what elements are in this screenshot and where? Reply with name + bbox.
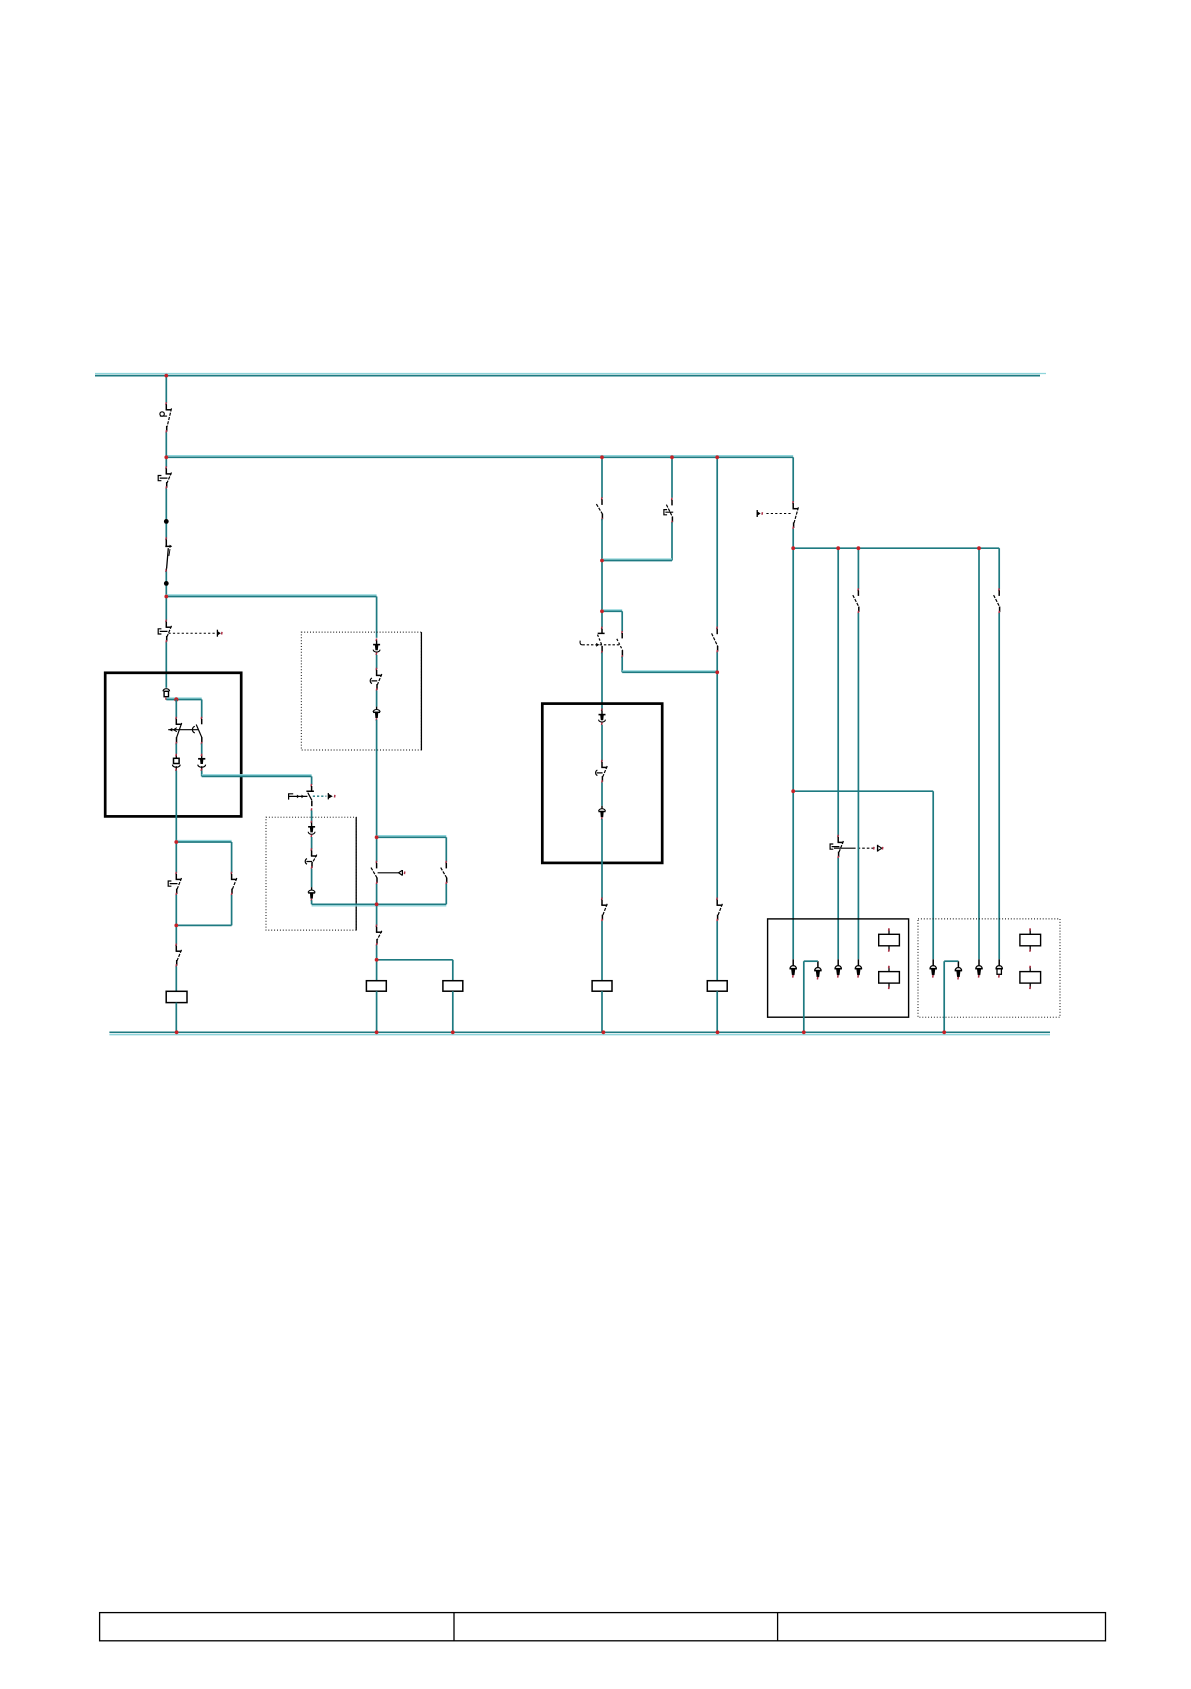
connector pin into socket (top) in D1 [373, 639, 380, 656]
contact S4 (manual switch with mechanical link) [158, 620, 171, 643]
wire branch3b from L2 to S14 [671, 457, 673, 498]
terminal box P2 (dotted outline) [918, 919, 1060, 1017]
wire branch4 from L2 down to S17 [716, 457, 718, 628]
plug pin P2-3 [975, 959, 982, 977]
wire S5 to bypass bottom [175, 895, 177, 925]
contact S14 (manual, E actuator) [664, 498, 673, 524]
wire P1 return to bottom rail (vert) [803, 961, 805, 1032]
wire branch2 to S12 [376, 904, 378, 926]
component F4 in box P2 [1020, 966, 1041, 989]
terminal box P1 (solid outline) [768, 919, 909, 1017]
wire S15 to coil K4 [601, 921, 603, 981]
junction loop bottom y904 [375, 902, 379, 906]
connector pin X2 left (hollow) in U1 [172, 754, 180, 771]
wire D2 internal 1 [311, 837, 313, 850]
contact S6 (bypass right leg) [231, 872, 237, 896]
wire P2 return to bottom rail (horiz) [944, 960, 958, 962]
wire S19 down into box P1 [837, 858, 839, 959]
wire S21 down into box P2 [998, 613, 1000, 959]
wire branch3 from L2 to S13 [601, 457, 603, 498]
wire split node down right leg [201, 700, 203, 719]
wire K1 to bottom rail [175, 1003, 177, 1033]
wire D2 exit down [311, 900, 313, 904]
wire branch x793 down to y791 junction [792, 548, 794, 791]
wire merge node down to step node [601, 561, 603, 612]
mechanical link dashed line of S4 with arrow [169, 630, 223, 637]
wire S4 into interlock box U1 [165, 642, 167, 688]
wire S18 to rail y548 [792, 529, 794, 548]
wire step rung y611 [602, 610, 622, 611]
connector socket to pin (bottom) in D2 [308, 887, 315, 901]
wire U1 right leg to corner [201, 771, 203, 777]
wire S2 to node dot A [165, 489, 167, 540]
junction rail y548 left [791, 546, 795, 550]
junction split node in U1 [174, 697, 178, 701]
wire node B to contact S4 [165, 597, 167, 621]
junction K2 at bottom rail [375, 1030, 379, 1034]
wire loop left leg to S10 [376, 837, 378, 862]
wire S13 to merge node y560 [601, 519, 603, 561]
wire S16 to coil K5 [716, 921, 718, 981]
junction y672 branch4 [715, 670, 719, 674]
junction node B y596 [164, 595, 168, 599]
contact S2 (manual switch, E actuator) [158, 466, 171, 489]
component F3 in box P2 [1020, 928, 1041, 952]
wire x838 from rail down to S19 [837, 548, 839, 836]
contact S8b in D2 (arc actuator) [305, 848, 317, 869]
junction L1/branch1 [164, 374, 168, 378]
interlock box U1 (bold outline) [105, 673, 241, 817]
component F2 in box P1 [879, 966, 900, 989]
contact S19 (manual, E actuator, linked) [830, 835, 843, 859]
wire rung y672 to branch x717 [622, 671, 717, 672]
contact S16 [717, 898, 723, 922]
socket X1 (dome + hollow pin) in box U1 [163, 689, 170, 700]
wire x933 down into box P2 [932, 791, 934, 959]
wire U2 internal 1 [601, 725, 603, 761]
wire x793 into box P1 connector [792, 791, 794, 959]
wire rail y548 [793, 547, 999, 549]
junction loop top y837 [375, 835, 379, 839]
contact S11 (right leg of loop) [441, 861, 447, 885]
contact S15 [601, 898, 607, 922]
wire branch2 down into dotted box D1 [376, 597, 378, 638]
component F1 in box P1 [879, 928, 900, 952]
wire coil node down to coil K2 [376, 960, 378, 981]
plug pin P1-3 [835, 959, 842, 977]
junction merge y560 [600, 559, 604, 563]
wire S9 left down into box U2 [601, 653, 603, 710]
junction rail y548 x858 [857, 546, 861, 550]
coil K1 [166, 991, 187, 1002]
title block frame [100, 1613, 1106, 1641]
junction L2/branch3b [670, 455, 674, 459]
wire down to S9 left [601, 611, 603, 627]
junction P1 return at bottom rail [802, 1030, 806, 1034]
junction y791 x793 [791, 789, 795, 793]
wire rung y596 from node B to branch2 [166, 595, 376, 597]
contact S7b in D1 (arc actuator) [370, 668, 382, 691]
junction L2/branch1 [164, 455, 168, 459]
wire x858 from rail down to S20 [857, 548, 859, 589]
mechanical link line of S19 with arrow [834, 845, 883, 852]
wire S8 into dotted box D2 [311, 810, 313, 822]
dotted box D1 outline [301, 632, 421, 750]
junction rail y548 x979 [977, 546, 981, 550]
wire corner down to S8 [311, 776, 313, 784]
wire S14 down to rung y560 [671, 522, 673, 560]
wire S1 to L2 junction [165, 432, 167, 457]
wire S7 to coil K1 [175, 966, 177, 991]
wire S17 to junction y672 [716, 652, 718, 672]
wire K5 to bottom rail [716, 991, 718, 1032]
plug pin P1-4 [855, 959, 862, 977]
connector pin into socket (top) in D2 [308, 821, 315, 838]
contact S21 [994, 588, 1000, 613]
contact S9 left (linked changeover, T-bar) [598, 627, 605, 654]
title block divider 2 [777, 1613, 779, 1641]
wire U1 to switch S8 horizontal [202, 775, 312, 777]
wire P2 return to bottom rail (vert) [943, 961, 945, 1032]
mechanical linkage of changeover pair in U1 [168, 726, 198, 733]
junction K3 at bottom rail [451, 1030, 455, 1034]
contact S13 [596, 497, 602, 520]
wire branch4 down to S16 [716, 672, 718, 899]
contact S20 [853, 588, 859, 613]
junction U1 left leg y842 [174, 840, 178, 844]
wire P1 return to bottom rail (horiz) [804, 960, 818, 962]
contact S3 (breaker element with arrowed foot) [165, 537, 172, 572]
junction P2 return at bottom rail [942, 1030, 946, 1034]
wire U2 exit down [601, 819, 603, 899]
wire rung y904 from D2 to right loop [312, 904, 447, 906]
wire S20 down into box P1 [857, 613, 859, 959]
wire K3 to bottom rail [452, 991, 454, 1032]
black connection dot B [164, 581, 169, 586]
wire rail y548 corner down x999 [998, 548, 1000, 589]
wire S3 to node dot B [165, 572, 167, 597]
wire down to coil K3 [452, 960, 454, 981]
wire loop right leg down to S11 [445, 837, 447, 862]
junction bypass bottom y925 [174, 924, 178, 928]
contact S9b in U2 (arc actuator) [596, 760, 608, 783]
wire branch1 from L1 to contact S1 [165, 376, 167, 404]
junction K5 at bottom rail [716, 1030, 720, 1034]
contact S5 (manual, E actuator) [168, 872, 181, 896]
wire rung y791 [793, 790, 933, 792]
wire split node down left leg [175, 700, 177, 719]
wire rung y560 merge [602, 559, 672, 561]
mechanical link dashed line of S18 [757, 510, 790, 517]
wire D1 internal 1 [376, 655, 378, 669]
changeover contact left half in U1 [176, 717, 182, 745]
contact S9 right (linked changeover) [617, 631, 623, 658]
wire S9 right down to corner [621, 657, 623, 673]
wire branch5 corner from L2 down to S18 [792, 457, 794, 502]
wire U2 internal 2 [601, 783, 603, 806]
wire S10 down to y904 junction [376, 884, 378, 904]
wire U1 left leg down out of box [175, 771, 177, 842]
junction step y611 [600, 609, 604, 613]
junction coil node y960 [375, 958, 379, 962]
plug pin P2-1 [930, 959, 937, 977]
plug pin P2-2 [955, 961, 962, 979]
connector pin X3 right (filled) in U1 [198, 754, 206, 771]
wire x979 from rail down into box P2 [978, 548, 980, 959]
changeover contact right half in U1 [196, 717, 202, 745]
contact S17 [712, 627, 718, 653]
bus L1 (top horizontal supply rail) [95, 374, 1046, 376]
coil K3 [443, 981, 463, 992]
wire D1 exit down to loop top [376, 720, 378, 838]
coil K5 [707, 981, 727, 992]
wire down to S9 right [621, 611, 623, 632]
connector socket to pin (bottom) in D1 [373, 707, 380, 721]
junction L2/branch4 [715, 455, 719, 459]
wire K4 to bottom rail [601, 991, 603, 1032]
connector pin into socket (top) in U2 [599, 709, 606, 726]
wire bypass bottom to S7 [175, 925, 177, 944]
wire rung y925 bypass bottom [176, 924, 231, 926]
plug pin P2-4 (hollow) [996, 959, 1003, 977]
contact S8 (linked changeover with actuator train) [289, 784, 335, 811]
wire coil node to K3 rung [377, 959, 453, 961]
coil K4 [592, 981, 612, 992]
wire left leg S5 top [175, 842, 177, 873]
wire left contact to connector pair [175, 744, 177, 754]
bus N (bottom horizontal return rail) [109, 1032, 1050, 1034]
junction rail y548 x838 [836, 546, 840, 550]
junction K1 at bottom rail [175, 1030, 179, 1034]
connector socket to pin (bottom) in U2 [599, 806, 606, 820]
wire socket X1 to split node [166, 698, 201, 700]
wire S6 down to bypass bottom [231, 895, 233, 925]
wire K2 to bottom rail [376, 991, 378, 1032]
wire loop top rung y837 [377, 836, 447, 838]
contact S1 (NC pushbutton, circle actuator) [160, 402, 172, 433]
wire right contact to connector pair [201, 744, 203, 754]
wire bypass right leg down [231, 842, 233, 873]
mechanical linkage dashed of S9 pair [580, 641, 619, 647]
bus L2 (second horizontal rail) [166, 456, 793, 458]
wire D1 internal 2 [376, 691, 378, 707]
plug pin P1-1 [790, 959, 797, 977]
wire S12 to coil node [376, 945, 378, 960]
dotted box D2 outline [266, 817, 356, 930]
contact S10 (left leg of loop) [371, 861, 405, 885]
plug pin P1-2 [814, 961, 821, 979]
wire rung y842 bypass top [176, 841, 231, 843]
junction L2/branch3 [600, 455, 604, 459]
interlock box U2 (bold outline) [542, 704, 662, 863]
black connection dot A [164, 519, 169, 524]
junction K4 at bottom rail [602, 1030, 606, 1034]
wire S11 down to loop bottom [445, 884, 447, 904]
contact S12 [376, 925, 382, 946]
coil K2 [366, 981, 386, 992]
contact S7 [176, 944, 182, 967]
wire D2 internal 2 [311, 869, 313, 888]
title block divider 1 [453, 1613, 455, 1641]
contact S18 (with left mechanical link) [793, 501, 799, 529]
wire L2 to contact S2 [165, 457, 167, 467]
